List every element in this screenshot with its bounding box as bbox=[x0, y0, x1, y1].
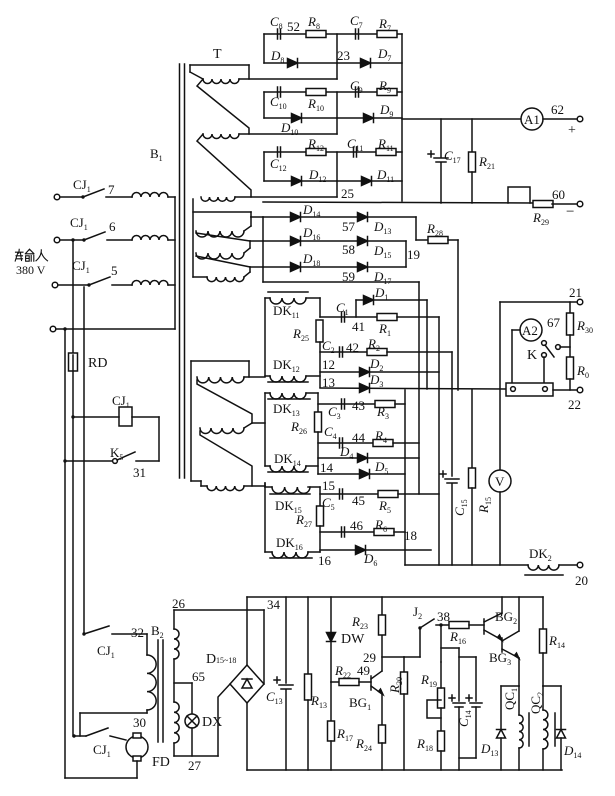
resistor R4 bbox=[373, 440, 393, 447]
svg-text:6: 6 bbox=[109, 219, 116, 234]
wire A2 left bbox=[512, 329, 520, 331]
svg-text:14: 14 bbox=[320, 460, 334, 475]
resistor R27 bbox=[319, 487, 321, 506]
wire BG1 emitter resistor R24 bbox=[381, 694, 383, 725]
winding T coil1 bbox=[203, 79, 239, 84]
diode D8 row bbox=[264, 62, 337, 64]
wire cell1 mid bbox=[336, 34, 338, 79]
wire jumper rect bbox=[508, 187, 530, 203]
saturable winding QC2 bbox=[543, 710, 548, 749]
wire bbox=[265, 297, 270, 299]
resistor R18 bbox=[440, 708, 442, 730]
resistor R15 bbox=[471, 390, 473, 468]
saturable winding QC1 bbox=[519, 715, 523, 748]
wire zigzag bbox=[197, 134, 251, 197]
resistor R26 bbox=[317, 393, 319, 412]
winding B1 lower coil2 bbox=[200, 428, 244, 434]
winding B1 lower bracket bbox=[190, 361, 192, 481]
svg-text:K: K bbox=[527, 348, 537, 363]
svg-text:FD: FD bbox=[152, 755, 170, 770]
transistor BG1 bbox=[370, 676, 372, 690]
capacitor C10 bbox=[277, 87, 279, 97]
wire cell1 right bbox=[401, 34, 403, 201]
wire return vertical bbox=[262, 217, 264, 282]
wire node 19 bbox=[405, 241, 407, 267]
capacitor C3 row 43 bbox=[318, 403, 374, 405]
wire cell3 left bbox=[263, 152, 265, 181]
wire bbox=[58, 284, 88, 286]
transistor BG2 bbox=[483, 619, 485, 634]
ammeter A1 bbox=[521, 108, 543, 130]
wire output positive y119 bbox=[402, 118, 521, 120]
wire feed DK12 bbox=[244, 376, 265, 378]
winding B1 lower coil1 bbox=[197, 377, 244, 383]
wire bottom bus bbox=[247, 769, 562, 771]
terminal 20 bbox=[577, 562, 583, 568]
wire zigzag bbox=[197, 79, 249, 134]
wire vertical x452 capacitor C15 bbox=[451, 352, 453, 476]
winding B1 lower coil3 bbox=[207, 486, 244, 491]
wire vertical x441 bbox=[438, 317, 440, 565]
svg-text:7: 7 bbox=[108, 182, 115, 197]
wire bridge bottom bbox=[246, 703, 248, 770]
capacitor C4 row 44 bbox=[318, 442, 372, 444]
switch K bbox=[542, 341, 547, 346]
node 30 bbox=[80, 712, 147, 714]
wire cell2 left bbox=[263, 92, 265, 118]
saturable reactor DK11 bbox=[268, 291, 308, 293]
svg-text:58: 58 bbox=[342, 242, 355, 257]
svg-text:46: 46 bbox=[350, 518, 364, 533]
svg-text:62: 62 bbox=[551, 102, 564, 117]
capacitor C6 row 46 bbox=[320, 531, 374, 533]
svg-text:T: T bbox=[213, 47, 222, 62]
capacitor C1 row 41 bbox=[320, 316, 378, 318]
resistor R25 bbox=[319, 298, 321, 317]
svg-text:18: 18 bbox=[404, 528, 417, 543]
winding T mid bracket bbox=[192, 199, 194, 277]
svg-text:+: + bbox=[568, 123, 576, 138]
inductor row2 bbox=[132, 236, 168, 241]
wire feed DK15 bbox=[244, 485, 265, 487]
svg-text:27: 27 bbox=[188, 758, 202, 773]
transistor BG3 bbox=[501, 638, 503, 652]
wire vertical x427 bbox=[426, 300, 428, 389]
wire bbox=[168, 284, 175, 286]
wire bbox=[552, 203, 577, 205]
svg-text:60: 60 bbox=[552, 187, 565, 202]
diode D11 row bbox=[337, 180, 402, 182]
winding T mid coil2 bbox=[196, 253, 244, 259]
capacitor C2 row 42 bbox=[320, 351, 367, 353]
capacitor C17 bbox=[440, 119, 442, 157]
svg-text:34: 34 bbox=[267, 597, 281, 612]
capacitor C11 bbox=[353, 147, 355, 157]
resistor R1 bbox=[377, 314, 397, 321]
capacitor C13 bbox=[285, 597, 287, 683]
svg-text:19: 19 bbox=[407, 247, 420, 262]
svg-text:A2: A2 bbox=[522, 323, 538, 338]
wire R19 wiper loop bbox=[427, 700, 441, 718]
wire bbox=[251, 216, 263, 218]
diode D14 branch bbox=[543, 685, 561, 687]
terminal input phase 3 bbox=[52, 282, 58, 288]
wire node 27 bbox=[174, 755, 218, 757]
svg-text:15~18: 15~18 bbox=[216, 656, 236, 665]
label input 380V Chinese text 输入 bbox=[15, 249, 47, 261]
wire cell2 top row bbox=[264, 91, 402, 93]
svg-text:21: 21 bbox=[569, 285, 582, 300]
wire BG1 collector node 29 bbox=[381, 635, 383, 671]
terminal input neutral bbox=[50, 326, 56, 332]
diode D9 row output to A1 bbox=[337, 117, 402, 119]
wire vertical x405 bbox=[404, 390, 406, 565]
wire BG2 collector bbox=[501, 597, 503, 613]
resistor R21 bbox=[471, 119, 473, 152]
resistor R3 bbox=[375, 401, 395, 408]
svg-text:49: 49 bbox=[357, 663, 370, 678]
wire bridge right to 34 bbox=[263, 610, 265, 684]
svg-text:RD: RD bbox=[88, 356, 107, 371]
switch CJ1 row3 bbox=[87, 283, 90, 286]
svg-text:52: 52 bbox=[287, 19, 300, 34]
svg-text:A1: A1 bbox=[524, 112, 540, 127]
capacitor C14b bbox=[459, 656, 476, 658]
winding T coil2 bbox=[203, 134, 239, 139]
resistor R23 bbox=[381, 597, 383, 615]
diode D15 row bbox=[363, 240, 406, 242]
capacitor C7 bbox=[355, 29, 357, 39]
winding T mid coil3 bbox=[207, 277, 244, 282]
inductor row1 bbox=[132, 193, 168, 198]
wire bridge left to 27 bbox=[218, 684, 230, 756]
svg-text:57: 57 bbox=[342, 219, 356, 234]
wire bridge top to bus bbox=[246, 597, 248, 665]
svg-text:DW: DW bbox=[341, 632, 365, 647]
resistor R11 bbox=[376, 149, 396, 156]
resistor R5 bbox=[378, 491, 398, 498]
diode D12 row bbox=[264, 180, 337, 182]
wire cell1 top row bbox=[264, 33, 402, 35]
wire feed DK13 bbox=[252, 422, 265, 424]
svg-text:20: 20 bbox=[575, 573, 588, 588]
diode D1 row bbox=[356, 299, 427, 301]
wire cell3 top row bbox=[264, 151, 402, 153]
wire phase vertical B x73 with fuse RD bbox=[72, 242, 74, 355]
wire node 22 bbox=[553, 389, 577, 391]
svg-text:42: 42 bbox=[346, 340, 359, 355]
resistor R14 bbox=[542, 597, 544, 629]
switch CJ1 row1 bbox=[81, 195, 84, 198]
capacitor C14a bbox=[441, 647, 459, 649]
svg-text:23: 23 bbox=[337, 48, 350, 63]
wire cell2 mid bbox=[336, 92, 338, 134]
wire bbox=[569, 302, 571, 313]
wire zigzag bbox=[196, 233, 250, 241]
resistor R16 bbox=[441, 624, 449, 626]
svg-text:380 V: 380 V bbox=[16, 263, 46, 277]
shunt box bbox=[506, 383, 553, 396]
wire zigzag bbox=[197, 380, 252, 423]
wire output bus y202 bbox=[263, 202, 534, 203]
terminal input phase 1 bbox=[54, 194, 60, 200]
wire bbox=[112, 284, 132, 286]
terminal 21 bbox=[577, 299, 583, 305]
terminal 22 bbox=[577, 387, 583, 393]
zener diode DW bbox=[330, 597, 332, 632]
wire bbox=[107, 239, 132, 241]
resistor R20 bbox=[403, 657, 405, 673]
wire bbox=[60, 239, 82, 241]
capacitor C9 bbox=[355, 87, 357, 97]
wire BG3 emitter bbox=[518, 658, 520, 686]
resistor R6 bbox=[374, 529, 394, 536]
saturable reactor DK15 bbox=[272, 487, 310, 493]
svg-text:5: 5 bbox=[111, 263, 118, 278]
resistor R29 bbox=[533, 201, 553, 208]
wire cell3 mid bbox=[336, 152, 338, 197]
motor FD bbox=[126, 736, 148, 758]
svg-text:22: 22 bbox=[568, 397, 581, 412]
wire node 21 bbox=[500, 301, 577, 303]
svg-text:32: 32 bbox=[131, 625, 144, 640]
svg-text:26: 26 bbox=[172, 596, 186, 611]
diode D16 row bbox=[263, 240, 363, 242]
switch CJ1 row2 bbox=[71, 238, 74, 241]
wire BG3 collector bbox=[518, 597, 520, 631]
svg-text:44: 44 bbox=[352, 430, 366, 445]
resistor R10 bbox=[306, 89, 326, 96]
resistor R12 bbox=[306, 149, 326, 156]
wire zigzag bbox=[196, 256, 250, 267]
diode D10 row bbox=[264, 117, 337, 119]
wire bbox=[136, 761, 138, 778]
wire vertical bus joining coils bbox=[174, 197, 176, 329]
wire bbox=[60, 196, 82, 198]
transformer B2 primary bbox=[146, 634, 148, 655]
wire zigzag bbox=[200, 431, 252, 486]
diode D13 branch bbox=[501, 685, 519, 687]
wire phase vertical A x65 bbox=[64, 331, 66, 778]
terminal 60 minus bbox=[577, 201, 583, 207]
svg-text:15: 15 bbox=[322, 478, 335, 493]
svg-text:59: 59 bbox=[342, 269, 355, 284]
svg-text:38: 38 bbox=[437, 609, 450, 624]
inductor row3 bbox=[132, 281, 168, 286]
wire bbox=[73, 416, 119, 418]
wire bbox=[56, 328, 175, 330]
fuse RD bbox=[69, 353, 78, 371]
transformer B2 core bbox=[157, 640, 159, 742]
svg-text:67: 67 bbox=[547, 315, 561, 330]
diode D18 row bbox=[263, 266, 363, 268]
wire vertical x419 bbox=[418, 282, 420, 494]
transformer B2 secondary bbox=[173, 610, 175, 629]
wire bbox=[543, 118, 577, 120]
svg-text:30: 30 bbox=[133, 715, 146, 730]
resistor R17 bbox=[330, 682, 332, 722]
diode D7 bbox=[337, 62, 402, 64]
svg-text:65: 65 bbox=[192, 669, 205, 684]
wire bottom top bus bbox=[247, 596, 543, 598]
svg-text:31: 31 bbox=[133, 465, 146, 480]
svg-text:−: − bbox=[566, 204, 574, 220]
wire bottom bus y565 bbox=[405, 564, 528, 566]
wire phase vertical C x84 bbox=[83, 287, 85, 634]
terminal 62 plus bbox=[577, 116, 583, 122]
svg-text:29: 29 bbox=[363, 650, 376, 665]
svg-text:D: D bbox=[206, 652, 216, 667]
svg-text:12: 12 bbox=[322, 357, 335, 372]
wire bbox=[168, 196, 175, 198]
winding T coil3 bbox=[201, 197, 235, 201]
diode D14 row bbox=[263, 216, 363, 218]
wire bbox=[168, 239, 175, 241]
svg-text:DX: DX bbox=[202, 715, 222, 730]
resistor R8 bbox=[306, 31, 326, 38]
capacitor C12 bbox=[277, 147, 279, 157]
wire D13 to R28 bbox=[415, 217, 417, 240]
wire node29 to R20 bbox=[382, 656, 404, 658]
saturable reactor DK13 bbox=[270, 393, 306, 399]
lamp DX bbox=[185, 714, 199, 728]
resistor R28 bbox=[416, 239, 428, 241]
resistor R30 bbox=[567, 313, 574, 335]
resistor R0 bbox=[567, 357, 574, 379]
wire bbox=[106, 196, 132, 198]
svg-text:41: 41 bbox=[352, 319, 365, 334]
svg-text:25: 25 bbox=[341, 186, 354, 201]
svg-text:16: 16 bbox=[318, 553, 332, 568]
resistor R2 bbox=[367, 349, 387, 356]
winding T upper rail bbox=[190, 64, 249, 66]
terminal input phase 2 bbox=[54, 237, 60, 243]
wire J2 vertical bbox=[440, 625, 442, 662]
diode D4 row bbox=[318, 457, 419, 459]
svg-text:V: V bbox=[495, 474, 505, 489]
capacitor C8 bbox=[277, 29, 279, 39]
resistor R7 bbox=[377, 31, 397, 38]
resistor R9 bbox=[377, 89, 397, 96]
diode D13 row bbox=[363, 216, 416, 218]
wire node29 extend bbox=[404, 656, 420, 658]
voltmeter V bbox=[499, 302, 501, 470]
winding T mid coil1 bbox=[196, 231, 244, 237]
diode D17 row bbox=[363, 266, 406, 268]
resistor R13 bbox=[307, 597, 309, 674]
ammeter A2 bbox=[520, 319, 542, 341]
svg-text:43: 43 bbox=[352, 398, 365, 413]
wire cell1 left bbox=[263, 34, 265, 63]
svg-text:45: 45 bbox=[352, 493, 365, 508]
wire R28 vertical bbox=[457, 240, 459, 390]
resistor R19 bbox=[438, 688, 445, 708]
